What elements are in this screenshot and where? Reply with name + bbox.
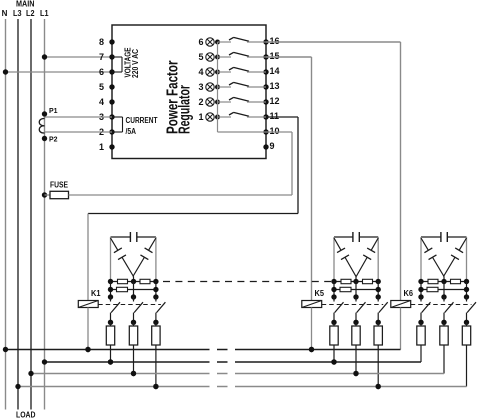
svg-text:8: 8	[99, 37, 104, 47]
wire N vertical	[5, 19, 7, 410]
svg-text:15: 15	[270, 51, 280, 61]
fuse K5 pole 2	[352, 322, 360, 376]
wire L3 vertical	[17, 19, 19, 410]
label LOAD	[16, 411, 36, 420]
svg-text:13: 13	[270, 81, 280, 91]
lamp 2	[198, 97, 220, 107]
fuse F control	[42, 191, 292, 198]
node row K6 poles	[418, 294, 469, 299]
svg-text:N: N	[2, 9, 8, 18]
net label L1	[40, 9, 49, 18]
dashed bus capacitor steps	[163, 281, 333, 283]
capacitor bank K5 delta	[334, 232, 378, 282]
bus L3 to fuses	[15, 384, 466, 389]
fuse K6 pole 1	[417, 322, 425, 362]
bus N to coils	[3, 347, 401, 352]
svg-text:CURRENT: CURRENT	[126, 116, 158, 125]
discharge resistors K1 row 1	[108, 279, 159, 284]
bus L2 to fuses	[28, 371, 444, 376]
contactor K1 pole 2	[131, 297, 143, 325]
svg-text:Regulator: Regulator	[177, 85, 194, 134]
svg-text:K5: K5	[315, 289, 325, 298]
svg-text:K6: K6	[404, 289, 414, 298]
svg-text:LOAD: LOAD	[16, 411, 36, 420]
svg-text:3: 3	[198, 82, 203, 92]
contactor K6 pole 2	[441, 297, 453, 325]
fuse K5 pole 3	[374, 322, 382, 389]
lamp 6	[198, 37, 220, 47]
net label L3	[13, 9, 22, 18]
fuse K6 pole 2	[440, 322, 448, 373]
lamp 5	[198, 52, 220, 62]
contactor K1 pole 3	[153, 297, 165, 325]
fuse K6 pole 3	[462, 322, 470, 386]
svg-text:9: 9	[270, 141, 275, 151]
svg-text:6: 6	[99, 67, 104, 77]
discharge resistor K1 row 2	[108, 282, 159, 298]
wire pin2 to CT	[45, 131, 113, 133]
op regulator box U1	[112, 25, 266, 159]
svg-text:6: 6	[198, 37, 203, 47]
relay contact output 2	[218, 97, 267, 102]
svg-text:5: 5	[99, 82, 104, 92]
wire pin7 to L1	[42, 54, 112, 59]
svg-text:L3: L3	[13, 9, 22, 18]
lamp 4	[198, 67, 220, 77]
svg-text:L1: L1	[40, 9, 49, 18]
svg-text:12: 12	[270, 96, 280, 106]
svg-text:P2: P2	[49, 137, 58, 144]
CT P1 terminal	[42, 108, 58, 117]
svg-text:1: 1	[198, 112, 203, 122]
relay contact output 1	[218, 112, 267, 117]
lamp 1	[198, 112, 220, 122]
wire lamp common bus to pin 10	[218, 42, 267, 132]
net label MAIN	[16, 0, 35, 9]
label CURRENT /5A	[126, 116, 158, 136]
contactor K5 pole 2	[353, 297, 365, 325]
lamp 3	[198, 82, 220, 92]
label VOLTAGE 220 V AC	[124, 47, 140, 78]
svg-text:2: 2	[198, 97, 203, 107]
pins 8-1 left side	[99, 37, 115, 152]
svg-text:220 V AC: 220 V AC	[131, 49, 140, 78]
contactor coil K1	[78, 289, 101, 352]
svg-text:4: 4	[198, 67, 203, 77]
svg-text:/5A: /5A	[126, 127, 137, 136]
svg-text:L2: L2	[26, 9, 35, 18]
mechanical linkage K5	[322, 304, 384, 306]
mechanical linkage K6	[411, 304, 472, 306]
contactor K5 pole 1	[331, 297, 343, 325]
bus L1 to fuses	[42, 359, 421, 364]
fuse K1 pole 1	[106, 322, 114, 364]
svg-text:7: 7	[99, 52, 104, 62]
wire pin10 to fuse line	[266, 132, 292, 195]
net label L2	[26, 9, 35, 18]
wire L1 vertical	[44, 19, 46, 410]
relay contact output 6	[218, 37, 267, 42]
relay contact output 4	[218, 67, 267, 72]
fuse K5 pole 1	[330, 322, 338, 364]
contactor K6 pole 1	[418, 297, 430, 325]
wire L2 vertical	[30, 19, 32, 410]
svg-text:FUSE: FUSE	[50, 181, 69, 190]
capacitor bank K6 delta	[421, 232, 467, 282]
capacitor bank K1 delta	[111, 232, 156, 282]
label FUSE	[50, 181, 69, 190]
svg-text:K1: K1	[91, 289, 101, 298]
node row K5 poles	[331, 294, 381, 299]
label Power Factor Regulator	[165, 61, 194, 135]
contactor K6 pole 3	[464, 297, 476, 325]
wire pin15 to K5 coil	[266, 57, 312, 301]
discharge resistors K6 row 1	[418, 279, 469, 284]
fuse K1 pole 3	[152, 322, 160, 389]
wire pin16 to K6 coil	[266, 42, 401, 301]
discharge resistors K5 row 1	[331, 279, 381, 284]
contactor coil K5	[302, 289, 325, 352]
discharge resistor K5 row 2	[331, 282, 381, 298]
CT secondary coil	[39, 118, 44, 133]
svg-text:MAIN: MAIN	[16, 0, 35, 9]
svg-text:16: 16	[270, 36, 280, 46]
bracket pins 7-6 voltage input	[112, 57, 122, 72]
svg-text:4: 4	[99, 97, 104, 107]
svg-text:5: 5	[198, 52, 203, 62]
CT P2 terminal	[42, 136, 58, 144]
node row K1 poles	[108, 294, 159, 299]
svg-text:14: 14	[270, 66, 280, 76]
bracket pins 3-2 current input	[112, 117, 123, 132]
contactor K5 pole 3	[376, 297, 388, 325]
svg-text:11: 11	[270, 111, 280, 121]
svg-text:P1: P1	[49, 108, 58, 115]
wire pin11 to K1 coil	[88, 117, 298, 301]
svg-text:10: 10	[270, 126, 280, 136]
wire pin3 to CT	[45, 116, 113, 118]
pins 16-9 right side	[263, 36, 279, 151]
fuse K1 pole 2	[129, 322, 137, 376]
contactor K1 pole 1	[108, 297, 120, 325]
svg-text:1: 1	[99, 142, 104, 152]
contactor coil K6	[391, 289, 414, 350]
discharge resistor K6 row 2	[418, 282, 469, 298]
relay contact output 5	[218, 52, 267, 57]
net label N	[2, 9, 8, 18]
mechanical linkage K1	[98, 304, 161, 306]
wire pin6 to N	[3, 69, 112, 74]
relay contact output 3	[218, 82, 267, 87]
